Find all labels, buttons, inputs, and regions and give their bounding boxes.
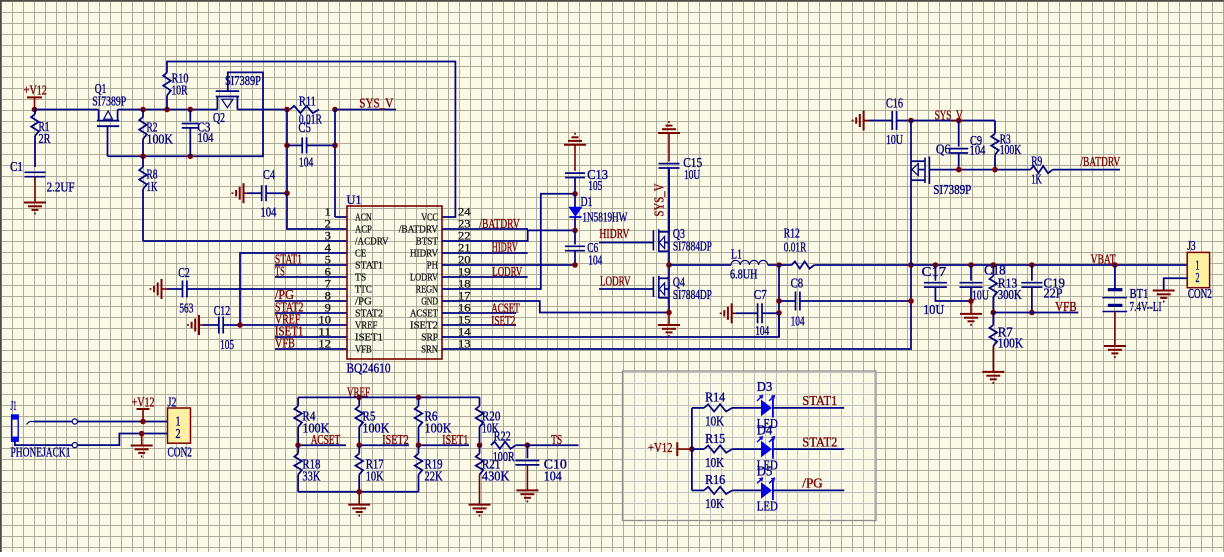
svg-text:J3: J3 [1187,238,1196,253]
ground (C2, rotated) [151,279,168,299]
wire BTST pin22 [442,230,575,241]
resistor R1 [31,110,50,168]
op-amp U1 BQ24610 charge controller IC [318,192,470,376]
LED indicator sub-area box [623,371,877,521]
svg-text:ISET1: ISET1 [442,432,468,447]
svg-text:J2: J2 [168,395,177,410]
junction +V12/R1 [32,107,38,113]
svg-text:D5: D5 [757,464,773,479]
wire C1 to ground [34,177,36,203]
svg-text:PH: PH [427,260,438,272]
svg-text:L1: L1 [731,247,742,262]
wire Q4 source to gnd node [668,298,670,313]
capacitor C8 104 [779,276,911,329]
wire J1 sleeve [15,441,72,445]
wire tip to J2 [77,421,167,423]
power +V12 (J2) [132,395,155,422]
ground (BT1) [1104,346,1126,357]
junction SRP node [776,262,782,268]
junction C19 top [1029,262,1035,268]
svg-text:/BATDRV: /BATDRV [1080,154,1120,169]
capacitor C15 10U [659,133,703,233]
ground (J3) [1153,291,1175,302]
junction REGN/D1 [572,191,578,197]
ground (C18) [960,301,982,325]
wire LED rail [691,408,693,491]
svg-text:SYS_V: SYS_V [652,183,667,216]
wire J3 pin2 to ground [1164,278,1188,290]
svg-text:ISET2: ISET2 [491,313,515,328]
svg-text:ISET1: ISET1 [355,332,383,344]
svg-text:12: 12 [318,337,331,351]
svg-text:C17: C17 [922,264,947,279]
svg-text:104: 104 [970,143,986,158]
wire SRP vertical [778,265,780,337]
capacitor C9 104 [949,121,986,170]
inductor L1 6.8UH [669,247,779,282]
wire gate rail [108,72,264,156]
net label LODRV (Q4 gate) [599,274,654,290]
net label SYS_V (right) [911,108,995,123]
wire /ACDRV pin3 [143,240,347,242]
svg-text:1K: 1K [1031,172,1042,187]
resistor R8 1K [139,156,158,241]
svg-text:D4: D4 [757,422,773,437]
svg-text:C12: C12 [214,303,231,318]
svg-text:104: 104 [755,323,769,338]
junction gnd/J2 pin2 [139,431,145,437]
svg-text:563: 563 [179,301,193,316]
svg-text:VREF: VREF [355,320,377,332]
ground (Q4 source) [658,313,680,337]
svg-text:+V12: +V12 [648,440,673,455]
junction C8 right [908,298,914,304]
wire Q3 source / Q4 drain [668,251,670,278]
svg-text:2: 2 [1196,270,1200,285]
svg-text:430K: 430K [482,469,510,484]
capacitor C16 10U [869,96,911,148]
net label STAT2 pin9 [275,300,347,315]
wire BT1 to ground [1114,312,1116,347]
net label STAT1 pin5 [275,252,347,267]
net label VREF (rail) [347,385,370,400]
junction BTST/C6 [572,228,578,234]
terminal circle (tip) [72,419,77,424]
junction ISET2 [356,442,362,448]
wire top rail [167,62,455,218]
junction Q4 source/GND [666,310,672,316]
diode D1 1N5819HW [569,194,627,231]
svg-text:/PG: /PG [802,476,823,491]
junction R10 bottom [164,107,170,113]
svg-text:STAT2: STAT2 [802,434,837,449]
svg-text:2R: 2R [39,131,51,146]
resistor R16 10K [692,472,762,511]
junction R13 top [991,262,997,268]
svg-text:BTST: BTST [416,236,439,248]
svg-text:10U: 10U [972,288,989,303]
LED D3 [757,379,778,431]
svg-text:SI7389P: SI7389P [92,94,126,109]
wire Q1 drain to R10 node [118,109,218,111]
connector J2 CON2 [168,395,193,460]
capacitor C4 104 [247,167,287,220]
junction VREF/CE [237,322,243,328]
svg-text:STAT2: STAT2 [355,308,383,320]
svg-text:STAT1: STAT1 [802,393,837,408]
resistor R7 100K [990,313,1024,372]
svg-text:R11: R11 [299,94,316,109]
ground (J2) [131,434,153,457]
junction C18 top [968,262,974,268]
svg-text:BQ24610: BQ24610 [347,361,391,376]
svg-text:7.4V--LI: 7.4V--LI [1130,299,1162,314]
net label VFB pin12 [275,336,347,351]
junction C8 left [776,298,782,304]
svg-text:R9: R9 [1031,154,1042,169]
svg-text:10K: 10K [705,496,724,511]
svg-text:VCC: VCC [421,212,438,224]
svg-text:D3: D3 [757,379,773,394]
battery BT1 7.4V-LI [1102,265,1161,314]
capacitor C18 10U [960,263,1006,303]
net label SYS_V (left) [335,96,396,111]
net label /PG pin8 [275,287,347,302]
resistor R13 300K [990,265,1023,313]
svg-text:104: 104 [260,205,276,220]
svg-text:104: 104 [791,314,805,329]
net label ACSET pin16 [442,301,520,316]
junction ACSET [295,442,301,448]
junction R13/VFB [991,310,997,316]
svg-text:10K: 10K [366,469,384,484]
svg-text:100K: 100K [998,336,1024,351]
svg-text:VFB: VFB [355,344,372,356]
svg-text:SI7884DP: SI7884DP [673,287,712,302]
junction R3 bottom [992,167,998,173]
net label SYS_V (vertical) [652,183,667,216]
net label TS pin6 [275,264,347,279]
svg-text:ACP: ACP [355,224,372,236]
svg-text:104: 104 [299,155,314,170]
svg-text:VBAT: VBAT [1091,252,1116,267]
svg-text:ACSET: ACSET [311,432,341,447]
junction C3 top [188,107,194,113]
capacitor C12 105 [203,303,347,352]
ground (C7, rotated) [721,303,736,323]
svg-text:STAT1: STAT1 [355,260,383,272]
capacitor C2 563 [167,265,347,316]
wire sleeve to J2 [77,434,167,446]
svg-text:U1: U1 [347,192,362,207]
svg-text:33K: 33K [302,469,320,484]
resistor R17 10K [355,445,384,492]
wire R11 left vertical [286,110,288,194]
capacitor C5 104 [287,120,335,170]
svg-text:+V12: +V12 [24,83,47,98]
junction bottom rail [356,489,362,495]
wire CE pin4 [240,253,347,325]
svg-text:HIDRV: HIDRV [492,240,518,255]
wire bottom rail [298,491,418,493]
junction C17 top [933,262,939,268]
svg-text:SRN: SRN [421,344,438,356]
svg-text:ACSET: ACSET [410,308,438,320]
svg-text:HIDRV: HIDRV [410,248,438,260]
capacitor C10 104 [515,445,567,490]
resistor R5 100K [355,397,389,445]
transistor Q2 SI7389P [213,73,261,125]
junction C3 bottom rail [188,154,194,160]
junction R22 left [477,442,483,448]
resistor R20 10K [476,397,501,445]
wire REGN pin18 [442,194,575,289]
net label /BATDRV pin23 [442,216,528,231]
svg-text:10U: 10U [886,132,903,147]
svg-text:TS: TS [551,432,562,447]
wire main VBAT line [911,264,1187,266]
ground (C1) [24,203,46,214]
svg-text:LODRV: LODRV [600,274,631,289]
junction C5 left [284,143,290,149]
svg-text:ISET2: ISET2 [410,320,438,332]
svg-text:105: 105 [220,337,234,352]
svg-text:SI7389P: SI7389P [225,73,261,88]
svg-text:GND: GND [421,296,438,308]
connector J1 PHONEJACK1 [11,398,71,460]
capacitor C19 22P [1021,265,1065,313]
svg-text:HIDRV: HIDRV [599,226,629,241]
svg-text:+V12: +V12 [132,395,155,410]
resistor R12 0.01R [779,226,911,269]
svg-text:10K: 10K [705,414,724,429]
LED D4 [757,422,778,472]
wire R11 right vertical [334,110,336,218]
power +V12 (LED box) [648,440,692,456]
terminal circle (sleeve) [72,443,77,448]
junction R2 top [140,107,146,113]
svg-text:2.2UF: 2.2UF [47,180,75,195]
wire SRP pin14 [442,313,779,337]
svg-text:R15: R15 [705,431,725,446]
svg-text:300K: 300K [998,287,1022,302]
transistor Q4 SI7884DP [653,275,712,303]
svg-text:2: 2 [176,426,181,441]
junction +V12 LED rail [689,446,695,452]
svg-text:LODRV: LODRV [492,264,522,279]
resistor R15 10K [692,431,762,470]
wire J1 tip [34,421,73,423]
wire R3 branch [994,121,996,134]
svg-text:1K: 1K [147,179,158,194]
svg-text:SI7884DP: SI7884DP [673,239,712,254]
svg-text:10K: 10K [705,455,724,470]
svg-text:ISET2: ISET2 [382,432,409,447]
resistor R3 100K [991,132,1021,170]
capacitor C17 10U [922,264,971,317]
junction PH/C6 [572,262,578,268]
svg-text:/PG: /PG [355,296,372,308]
svg-text:CON2: CON2 [168,445,193,460]
svg-text:ACN: ACN [355,212,372,224]
junction C7 right [776,310,782,316]
svg-text:10R: 10R [172,83,188,98]
svg-text:/ACDRV: /ACDRV [355,236,389,248]
svg-text:C1: C1 [10,159,23,174]
svg-text:10U: 10U [923,302,944,317]
net label HIDRV pin21 [442,240,528,255]
net label ISET1 pin11 [275,324,347,339]
junction R6 top [416,395,422,401]
net label STAT1 (LED) [773,393,844,408]
wire Q3 drain to C15 [668,168,670,233]
ground (R7) [982,372,1004,383]
wire /BATDRV row [929,169,1030,171]
svg-text:R12: R12 [784,226,800,241]
transistor Q6 SI7389P [911,121,971,198]
resistor R10 10R [163,71,189,98]
junction C9 bottom [956,167,962,173]
svg-text:CE: CE [355,248,367,260]
resistor R18 33K [294,445,320,492]
svg-text:100K: 100K [1000,142,1022,157]
junction R11 right [332,107,338,113]
svg-text:Q6: Q6 [936,142,951,157]
svg-text:R14: R14 [705,390,725,405]
resistor R14 10K [692,390,762,429]
wire SRN pin13 [442,265,911,349]
ground (C4, rotated) [233,183,247,203]
net label VFB (divider) [993,299,1078,314]
junction C9 top [956,118,962,124]
junction VBAT/BT1 [1112,262,1118,268]
svg-text:6.8UH: 6.8UH [730,267,758,282]
junction R11 left [284,107,290,113]
net label TS (divider) [527,432,578,447]
power +V12 (input) [24,83,47,110]
junction R2/R8 rail [140,154,146,160]
svg-text:VFB: VFB [1055,299,1077,314]
junction SRN node [908,262,914,268]
svg-text:SI7389P: SI7389P [933,182,971,197]
svg-text:TS: TS [355,272,366,284]
wire PH pin20 [442,264,575,266]
capacitor C7 104 [736,287,779,338]
resistor R2 100K [139,110,173,157]
junction PH node Q3/Q4 [666,262,672,268]
svg-text:1N5819HW: 1N5819HW [582,210,627,225]
net label ISET2 (divider) [359,432,409,447]
svg-text:VFB: VFB [275,336,295,351]
wire ACP pin2 [287,193,347,229]
wire VREF rail [298,396,479,398]
net label ISET1 (divider) [419,432,470,447]
svg-text:/BATDRV: /BATDRV [399,224,438,236]
junction ISET1 [416,442,422,448]
svg-text:C2: C2 [178,265,190,280]
junction C16/Q6 [908,118,914,124]
net label VREF pin10 [275,312,301,327]
capacitor C3 104 [182,110,214,157]
svg-text:R22: R22 [494,429,511,444]
junction C4/ACP [284,190,290,196]
svg-text:104: 104 [588,253,602,268]
svg-text:0.01R: 0.01R [784,240,807,255]
svg-text:REGN: REGN [416,284,439,296]
resistor R22 100R [491,429,527,465]
wire Q6 drain down [910,180,912,265]
svg-text:R16: R16 [705,472,725,487]
resistor R4 100K [294,397,330,445]
resistor R9 1K [1030,154,1120,187]
svg-text:C4: C4 [263,167,275,182]
svg-text:104: 104 [544,469,562,484]
svg-text:D1: D1 [581,194,593,209]
capacitor C13 105 [565,145,608,194]
resistor R21 430K [476,445,510,504]
svg-text:PHONEJACK1: PHONEJACK1 [11,445,71,460]
ground (C10) [516,490,538,501]
ground (R21) [469,505,491,516]
ground (divider) [348,492,370,516]
svg-text:C8: C8 [791,276,804,291]
junction R5 top [356,395,362,401]
transistor Q1 SI7389P [92,81,126,126]
junction C5 right [332,143,338,149]
svg-text:J1: J1 [11,398,17,413]
net label LODRV pin19 [442,264,528,279]
junction +V12/J2 pin1 [140,419,146,425]
net label HIDRV (Q3 gate) [599,226,654,243]
wire ACN pin1 [335,216,347,218]
wire +V12 to Q1 [35,109,99,111]
svg-text:SYS_V: SYS_V [359,96,393,111]
ground (C16, rotated) [853,111,869,131]
svg-text:TTC: TTC [355,284,372,296]
svg-text:LED: LED [757,499,778,514]
svg-text:100K: 100K [147,132,174,147]
svg-text:10U: 10U [684,167,700,182]
resistor R6 100K [415,397,452,445]
net label /BATDRV (right) [1080,154,1120,169]
svg-text:22K: 22K [425,469,443,484]
wire Q2 drain to R11 [237,109,287,111]
junction R22/C10 [525,442,531,448]
svg-text:LODRV: LODRV [410,272,438,284]
connector J3 CON2 [1187,238,1212,301]
junction C19/VFB [1029,310,1035,316]
svg-text:SRP: SRP [421,332,438,344]
net label ISET2 pin15 [442,313,516,328]
resistor R11 0.01R [290,94,322,127]
wire Q1 gate down [107,126,109,156]
svg-text:C5: C5 [298,120,311,135]
ground (C15, inverted) [658,122,680,133]
svg-text:104: 104 [198,130,214,145]
transistor Q3 SI7884DP [653,226,712,254]
net label /PG (LED) [773,476,844,491]
svg-text:/BATDRV: /BATDRV [479,216,520,231]
svg-text:Q2: Q2 [213,110,225,125]
svg-text:C16: C16 [886,96,903,111]
svg-text:CON2: CON2 [1188,286,1212,301]
svg-text:TS: TS [275,264,285,279]
wire GND pin17 [442,301,669,313]
capacitor C1 2.2UF [10,159,75,195]
LED D5 [757,464,778,514]
net label VBAT [1091,252,1116,267]
net label ACSET (divider) [298,432,346,447]
